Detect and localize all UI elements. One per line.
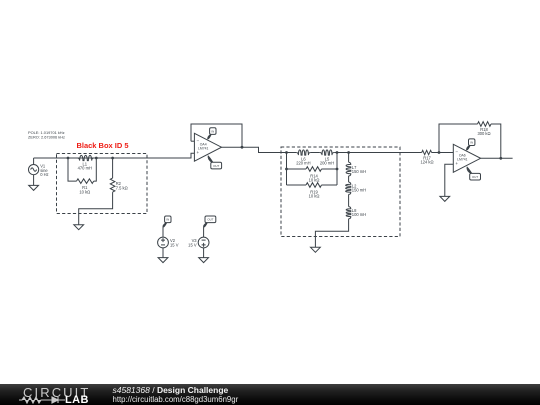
wire op-amp2 plus to ground [445,164,454,196]
wire main horizontal [34,153,195,158]
wire V2 up to flag [162,228,164,238]
svg-text:OUT: OUT [213,164,219,168]
wire op-amp2 output [481,157,513,159]
flag OUT supply [205,216,216,223]
svg-text:10 kΩ: 10 kΩ [309,177,320,182]
flag IN op-amp2 [467,146,471,151]
node right of L1 [95,157,98,160]
source V1 sine [28,165,38,175]
ground below V1 [33,175,35,186]
wire parallel loop R1 [68,158,77,181]
inductor chain L7 [348,153,350,163]
svg-text:470 mH: 470 mH [78,166,92,171]
svg-text:100 mH: 100 mH [352,212,366,217]
svg-text:+: + [455,161,458,166]
black box dashed outline [57,154,148,214]
node left of L1 [67,157,70,160]
middle dashed box [281,147,400,237]
wire between L6 L5 [311,152,320,154]
wire op-amp1 minus stub [191,140,194,142]
svg-text:OUT: OUT [207,217,213,221]
svg-text:+: + [196,150,199,155]
op-amp OA4 LM741 [194,133,221,161]
svg-text:LM741: LM741 [198,147,208,151]
ground black box [74,225,84,230]
node R2 top [111,157,114,160]
inductor L2 [348,176,350,182]
svg-text:150 mH: 150 mH [352,188,366,193]
resistor R19 [287,184,307,186]
ground below V3 [203,248,205,258]
inductor L6 [287,152,297,154]
svg-text:IN: IN [211,129,214,133]
flag IN op-amp1 [208,135,212,140]
node op-amp1 output junction [241,146,244,149]
source V3 [198,237,209,248]
wire L8 to ground [315,219,348,248]
resistor R18 [478,122,492,127]
ground middle box [311,247,321,252]
wire R2 bottom to ground [79,192,113,225]
wire V1 to main line [33,158,35,165]
ground op-amp2 [440,196,450,201]
inductor L5 [320,150,334,155]
svg-text:150 mH: 150 mH [352,169,366,174]
wire feedback loop op-amp2 [439,124,478,153]
svg-text:300 kΩ: 300 kΩ [477,131,490,136]
wire exits box to R17 [349,152,422,154]
resistor R1 [77,179,94,184]
op-amp OA6 LM741 [453,144,480,172]
svg-text:124 kΩ: 124 kΩ [420,160,433,165]
inductor L1 [77,155,94,160]
resistor R17 [422,150,432,154]
svg-text:10 kΩ: 10 kΩ [309,194,320,199]
svg-text:10 kΩ: 10 kΩ [79,189,90,194]
node left middle box [285,151,288,154]
flag IN supply [165,216,171,223]
svg-text:IN: IN [166,217,169,221]
wire V3 up to flag [203,228,205,238]
flag OUT op-amp1 [208,156,213,163]
svg-text:15 V: 15 V [170,242,179,247]
node right of L5 [336,151,339,154]
svg-text:200 mH: 200 mH [320,161,334,166]
flag OUT op-amp2 [467,167,472,174]
ground below V2 [162,248,164,258]
svg-text:15 V: 15 V [188,242,197,247]
wire op-amp1 output [222,147,282,152]
wire to inductor chain node [337,152,349,154]
inductor L8 [348,194,350,206]
svg-text:IN: IN [470,140,473,144]
resistor R2 [112,158,114,178]
node feedback2 junction [438,151,441,154]
svg-text:7.5 kΩ: 7.5 kΩ [116,185,128,190]
resistor R14 [287,168,307,170]
svg-text:220 mH: 220 mH [296,161,310,166]
parallel network verticals [286,153,288,186]
wire into middle box [281,152,287,154]
svg-text:0 Hz: 0 Hz [40,172,48,177]
circuitlab logo [23,385,90,400]
svg-text:Black Box ID 5: Black Box ID 5 [76,141,128,150]
svg-text:OUT: OUT [472,175,478,179]
source V2 [158,237,169,248]
svg-text:ZERO: 2.673006 kHz: ZERO: 2.673006 kHz [28,134,65,139]
wire feedback loop op-amp1 [191,124,242,147]
svg-text:LM741: LM741 [457,158,467,162]
